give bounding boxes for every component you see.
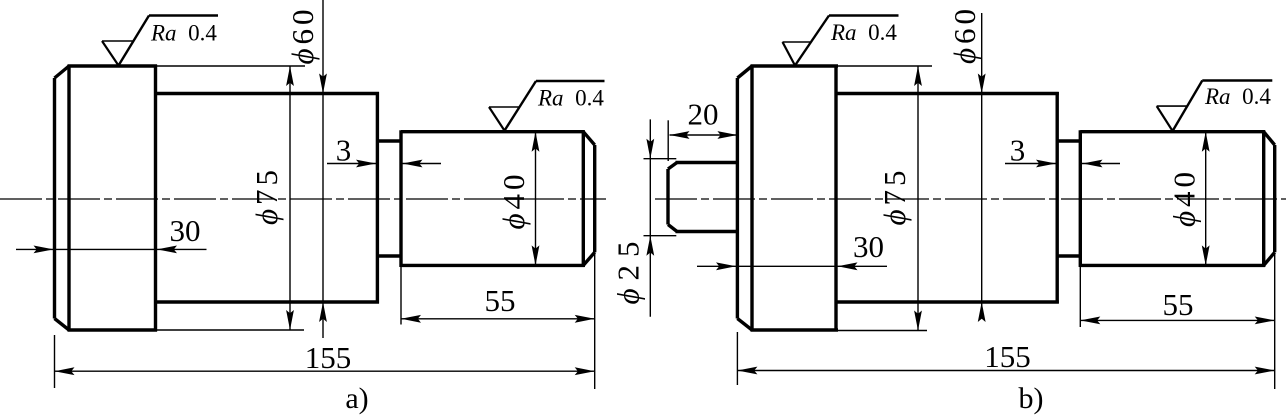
surface finish Ra 0.4 symbol: [489, 81, 605, 131]
svg-text:55: 55: [1163, 287, 1194, 322]
dimension phi60 (view b): [947, 5, 986, 322]
svg-text:ϕ75: ϕ75: [249, 166, 284, 225]
svg-text:Ra 0.4: Ra 0.4: [150, 21, 217, 46]
svg-text:ϕ60: ϕ60: [285, 5, 320, 64]
centerline axis (view a): [0, 198, 606, 200]
phi40 cylinder outline (view b): [1080, 130, 1274, 267]
surface finish Ra 0.4 symbol: [1157, 81, 1273, 132]
svg-text:55: 55: [485, 283, 516, 318]
dimension 155 overall (view a): [55, 252, 595, 389]
phi60 cylinder outline (view b): [836, 92, 1059, 304]
dimension phi60 (view a): [285, 0, 327, 338]
svg-text:a): a): [345, 382, 368, 415]
svg-text:3: 3: [336, 133, 352, 168]
dimension phi40 (view b): [1167, 132, 1210, 266]
svg-text:3: 3: [1010, 133, 1026, 168]
surface finish Ra 0.4 symbol: [102, 16, 218, 66]
svg-text:Ra 0.4: Ra 0.4: [1204, 84, 1271, 109]
svg-text:b): b): [1019, 382, 1044, 415]
dimension 55 (view b): [1080, 267, 1274, 327]
svg-text:ϕ75: ϕ75: [877, 166, 912, 225]
phi25 stub outline (view b): [668, 163, 737, 232]
dimension 20 stub length (view b): [668, 97, 737, 162]
svg-text:ϕ25: ϕ25: [611, 233, 646, 304]
dimension 55 (view a): [401, 267, 595, 325]
phi60 cylinder outline (view a): [156, 92, 380, 304]
dimension 30 flange length (view a): [16, 213, 207, 253]
svg-text:155: 155: [305, 340, 352, 375]
dimension phi75 (view b): [838, 66, 932, 331]
dimension 3 groove width (view b): [1005, 133, 1120, 168]
dimension 30 flange length (view b): [697, 229, 887, 270]
svg-text:155: 155: [984, 339, 1031, 374]
dimension 155 overall (view b): [737, 253, 1274, 389]
svg-text:ϕ60: ϕ60: [947, 5, 982, 64]
relief groove outline (view b): [1057, 141, 1082, 256]
dimension phi25 (view b): [611, 119, 677, 316]
svg-text:Ra 0.4: Ra 0.4: [830, 20, 897, 45]
dimension phi40 (view a): [496, 132, 539, 266]
dimension 3 groove width (view a): [327, 133, 441, 168]
shaft flange phi75 outline (view a): [55, 65, 158, 332]
relief groove outline (view a): [377, 141, 402, 256]
svg-text:ϕ40: ϕ40: [496, 170, 531, 229]
svg-text:30: 30: [170, 213, 201, 248]
phi40 cylinder outline (view a): [401, 130, 595, 267]
shaft flange phi75 outline (view b): [737, 65, 838, 332]
svg-text:30: 30: [853, 229, 884, 264]
centerline axis (view b): [655, 198, 1286, 200]
svg-text:20: 20: [688, 97, 719, 132]
svg-text:ϕ40: ϕ40: [1167, 168, 1202, 227]
svg-text:Ra 0.4: Ra 0.4: [537, 86, 604, 111]
surface finish Ra 0.4 symbol: [783, 16, 899, 66]
dimension phi75 (view a): [157, 66, 305, 330]
